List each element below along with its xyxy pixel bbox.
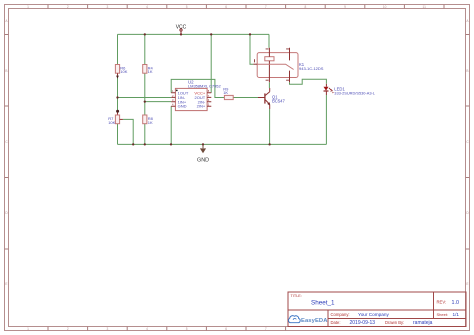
svg-text:1.0: 1.0 — [452, 300, 460, 306]
svg-text:TITLE:: TITLE: — [291, 294, 302, 298]
junction top rail at R4 — [144, 33, 146, 35]
svg-text:10: 10 — [383, 5, 387, 9]
svg-text:1/1: 1/1 — [453, 312, 460, 317]
svg-text:943-1C-12DS: 943-1C-12DS — [299, 66, 324, 71]
svg-text:1K: 1K — [148, 69, 153, 74]
svg-text:A: A — [466, 19, 469, 23]
wire VCC to U2 VCC+ — [210, 34, 212, 92]
svg-text:2: 2 — [67, 327, 69, 331]
svg-text:3: 3 — [107, 5, 109, 9]
svg-text:1: 1 — [27, 5, 29, 9]
relay K1 — [253, 48, 323, 83]
svg-text:VCC: VCC — [176, 24, 187, 30]
svg-text:7: 7 — [265, 327, 267, 331]
wire R7 wiper to bottom rail — [123, 119, 133, 144]
junction bottom rail R8 — [144, 143, 146, 145]
svg-text:Date:: Date: — [331, 320, 341, 325]
wire 1OUT loop over U2 to R9 — [171, 79, 224, 97]
VCC net flag — [176, 24, 187, 34]
frame tick marks top — [48, 5, 444, 9]
resistor R8 — [143, 115, 154, 125]
svg-text:2IN+: 2IN+ — [197, 104, 206, 109]
svg-text:3: 3 — [107, 327, 109, 331]
svg-text:9: 9 — [344, 5, 346, 9]
svg-text:333-2SURD/S530-A3-L: 333-2SURD/S530-A3-L — [334, 91, 375, 96]
svg-text:1K: 1K — [148, 120, 153, 125]
wire LED cathode down — [325, 95, 327, 144]
svg-text:REV:: REV: — [437, 300, 447, 305]
junction bottom rail GND flag — [202, 143, 204, 145]
wire GND bottom rail — [118, 143, 327, 145]
wire U2 GND pin to bottom rail — [170, 106, 172, 144]
svg-text:Your Company: Your Company — [358, 312, 389, 317]
svg-text:2: 2 — [67, 5, 69, 9]
svg-text:Sheet:: Sheet: — [437, 312, 449, 317]
svg-text:5: 5 — [186, 327, 188, 331]
LED1 — [324, 84, 376, 96]
svg-text:E: E — [5, 282, 7, 286]
wire relay coil pin2 to Q1 collector — [268, 82, 270, 88]
junction bottom rail R7 wiper — [132, 143, 134, 145]
frame row letters — [5, 19, 469, 286]
svg-text:6: 6 — [225, 5, 227, 9]
frame tick marks bottom — [48, 327, 286, 331]
svg-text:5: 5 — [186, 5, 188, 9]
wire VCC top rail — [118, 33, 270, 35]
wire relay NO contact to LED anode — [290, 79, 327, 84]
svg-text:1K: 1K — [223, 90, 228, 95]
svg-text:LM358MXL C7952: LM358MXL C7952 — [188, 84, 221, 89]
junction top rail at U2 VCC+ — [210, 33, 212, 35]
svg-text:GND: GND — [197, 158, 209, 164]
svg-text:E: E — [466, 282, 468, 286]
svg-text:GND: GND — [178, 104, 187, 109]
svg-text:C: C — [5, 140, 8, 144]
frame tick marks right — [466, 35, 470, 250]
svg-text:11: 11 — [423, 5, 427, 9]
wire Q1 emitter to bottom rail — [269, 109, 271, 144]
svg-text:8: 8 — [305, 5, 307, 9]
svg-text:Sheet_1: Sheet_1 — [311, 299, 335, 306]
junction top rail at VCC flag — [180, 33, 182, 35]
svg-text:1: 1 — [27, 327, 29, 331]
title block texts — [291, 294, 460, 326]
op-amp U2 LM358 — [171, 80, 221, 111]
svg-text:Drawn By:: Drawn By: — [385, 320, 404, 325]
svg-text:D: D — [5, 211, 8, 215]
wire rail end down to relay coil pin1 — [268, 34, 270, 47]
svg-text:4: 4 — [146, 327, 148, 331]
junction bottom rail U2 GND — [170, 143, 172, 145]
svg-text:C: C — [466, 140, 469, 144]
wire R9 to Q1 base — [233, 97, 258, 99]
transistor Q1 — [258, 88, 285, 109]
frame tick marks left — [5, 35, 9, 250]
junction R4-R8 1IN+ tap — [144, 100, 146, 102]
svg-text:B: B — [466, 69, 468, 73]
svg-text:ramateja: ramateja — [413, 320, 433, 326]
EasyEDA logo — [289, 316, 329, 324]
wire left column R6-R7 — [117, 34, 119, 144]
svg-text:10K: 10K — [108, 120, 115, 125]
svg-text:7: 7 — [265, 5, 267, 9]
wire to 1IN- — [118, 97, 172, 99]
wire VCC to relay common — [250, 34, 253, 64]
svg-text:10K: 10K — [120, 69, 127, 74]
wire to 1IN+ — [145, 101, 171, 103]
junction bottom rail Q1 emitter — [268, 143, 270, 145]
svg-text:4: 4 — [146, 5, 148, 9]
svg-text:D: D — [466, 211, 469, 215]
junction left column 1IN- tap — [116, 96, 118, 98]
potentiometer R7 — [108, 110, 123, 125]
title block — [288, 292, 466, 327]
svg-text:Company:: Company: — [331, 312, 350, 317]
svg-text:6: 6 — [225, 327, 227, 331]
resistor R6 — [115, 65, 127, 79]
svg-text:A: A — [5, 19, 8, 23]
junction top rail at relay common — [249, 33, 251, 35]
resistor R9 — [223, 87, 233, 100]
svg-text:2019-09-13: 2019-09-13 — [350, 320, 376, 326]
GND net flag — [197, 144, 209, 163]
resistor R4 — [143, 65, 154, 75]
svg-text:B: B — [5, 69, 7, 73]
svg-text:BC547: BC547 — [272, 98, 285, 103]
wire R4-R8 column — [144, 34, 146, 144]
svg-text:EasyEDA: EasyEDA — [301, 318, 328, 324]
